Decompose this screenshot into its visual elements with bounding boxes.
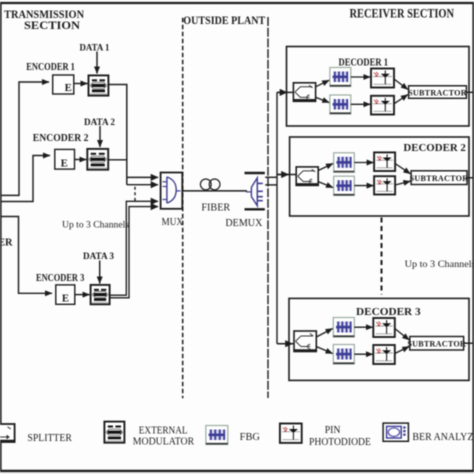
svg-text:OUTSIDE PLANT: OUTSIDE PLANT (183, 13, 265, 27)
svg-text:E: E (61, 157, 68, 169)
svg-text:SUBTRACTOR: SUBTRACTOR (408, 88, 467, 97)
svg-text:DECODER 1: DECODER 1 (339, 58, 389, 69)
svg-text:DATA 3: DATA 3 (83, 251, 114, 262)
svg-text:MODULATOR: MODULATOR (133, 437, 195, 448)
svg-text:PIN: PIN (325, 425, 341, 436)
svg-text:FBG: FBG (240, 432, 261, 443)
svg-text:ER: ER (0, 238, 13, 249)
svg-text:E: E (62, 293, 69, 305)
svg-text:PHOTODIODE: PHOTODIODE (309, 437, 371, 448)
svg-text:BER ANALYZ: BER ANALYZ (412, 432, 473, 443)
svg-text:DECODER 3: DECODER 3 (356, 307, 421, 318)
svg-text:Up to 3 Channels: Up to 3 Channels (405, 259, 474, 270)
svg-text:DEMUX: DEMUX (225, 218, 262, 229)
svg-text:ENCODER 1: ENCODER 1 (26, 62, 75, 73)
svg-text:DECODER 2: DECODER 2 (403, 143, 465, 154)
svg-text:ENCODER 2: ENCODER 2 (33, 133, 89, 144)
svg-text:EXTERNAL: EXTERNAL (139, 426, 188, 437)
svg-text:DATA 1: DATA 1 (80, 42, 110, 53)
svg-text:SECTION: SECTION (24, 18, 80, 32)
svg-text:MUX: MUX (162, 217, 184, 228)
svg-text:Up to 3 Channels: Up to 3 Channels (62, 219, 129, 230)
svg-text:ENCODER 3: ENCODER 3 (36, 273, 84, 284)
svg-text:FIBER: FIBER (201, 202, 230, 213)
svg-text:SUBTRACTOR: SUBTRACTOR (407, 340, 466, 349)
svg-text:RECEIVER SECTION: RECEIVER SECTION (350, 7, 455, 21)
svg-text:E: E (65, 82, 72, 94)
svg-text:SUBTRACTOR: SUBTRACTOR (410, 174, 469, 183)
svg-text:SPLITTER: SPLITTER (27, 433, 72, 444)
